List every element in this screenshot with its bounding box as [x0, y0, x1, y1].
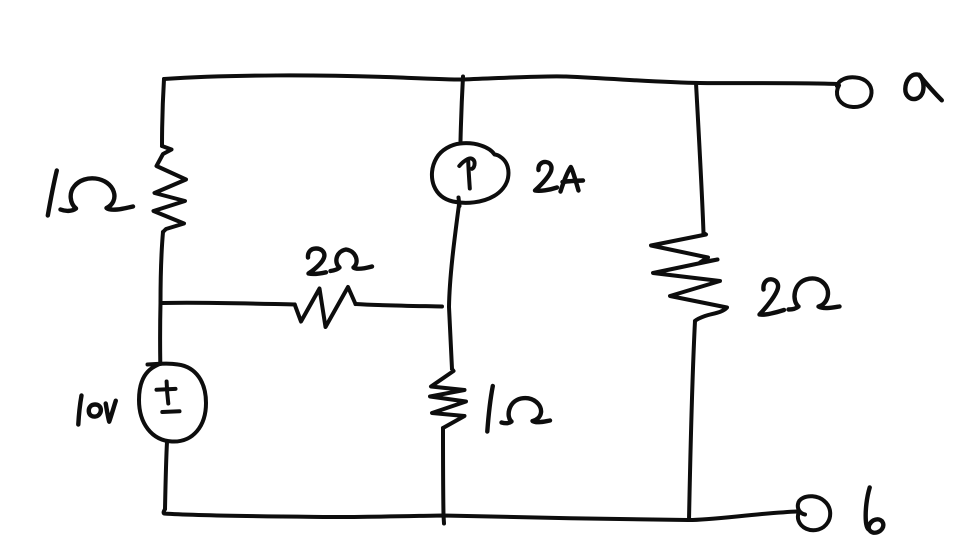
current source I1 blob [432, 143, 509, 203]
wire: right branch bottom segment (resistor to bottom rail) [689, 321, 695, 520]
resistor 2ohm right (zigzag) [651, 233, 727, 321]
wire: top rail from top-left corner to terminal a [164, 75, 837, 84]
value label "1Ω" for middle resistor [487, 386, 550, 432]
resistor 2ohm horizontal (zigzag) [295, 287, 356, 327]
voltage source V1 circle [139, 364, 206, 442]
terminal b circle [798, 496, 830, 530]
value label "2Ω" for right resistor [760, 279, 840, 315]
voltage source plus sign [157, 387, 176, 392]
wire: right branch top segment (top rail to right resistor) [696, 83, 704, 233]
wire: middle horizontal rail left part [162, 303, 295, 305]
wire: left branch lower segment (source to bottom-left corner) [165, 442, 167, 509]
terminal a circle [837, 77, 872, 107]
voltage source minus sign [162, 409, 179, 414]
wire: bottom rail from bottom-left corner to terminal b [164, 509, 797, 520]
value label "2Ω" for horizontal resistor [308, 249, 372, 274]
wire: middle branch segment (current source to middle rail junction to resistor) [459, 198, 460, 207]
wire: left branch upper segment [162, 79, 164, 146]
wire: middle horizontal rail right part [356, 304, 443, 307]
wire: middle branch bottom segment (resistor to bottom rail, slight overshoot) [443, 428, 444, 524]
wire: left branch middle segment (resistor to middle rail to source) [160, 232, 163, 364]
node label "b" [866, 488, 884, 533]
resistor 1ohm left (zigzag) [154, 146, 187, 232]
wire: middle branch top segment (top rail to current source) [461, 77, 464, 142]
current source arrow (pointing up) [468, 161, 470, 189]
value label "2A" for current source [535, 162, 583, 192]
value label "1Ω" for left resistor [48, 171, 133, 216]
resistor 1ohm middle (zigzag) [430, 369, 466, 428]
node label "a" [905, 74, 942, 100]
value label "10v" for voltage source [78, 396, 116, 425]
